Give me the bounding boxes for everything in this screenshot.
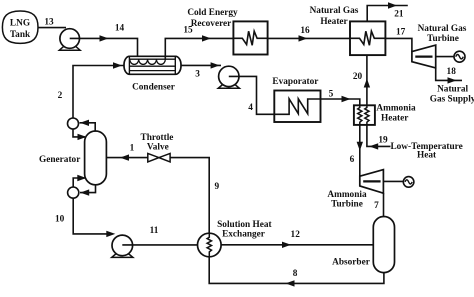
wire 3 (condenser to pump P2) (181, 62, 221, 68)
svg-text:Solution Heat: Solution Heat (217, 220, 272, 230)
svg-text:1: 1 (130, 144, 135, 154)
generator symbol (NG turbine) (454, 51, 465, 62)
svg-text:Turbine: Turbine (331, 199, 363, 209)
svg-text:Natural Gas: Natural Gas (418, 24, 467, 34)
wire reflux return (drum to generator) (73, 129, 87, 140)
wire 12 (solution heat exchanger to absorber) (221, 242, 373, 248)
shaft: ammonia turbine to generator (383, 180, 403, 182)
svg-text:Absorber: Absorber (332, 257, 370, 267)
wire vapor loop (generator top to reflux drum) (80, 120, 96, 132)
condenser (124, 56, 181, 74)
natural gas heater (350, 21, 385, 55)
throttle valve (148, 153, 170, 162)
wire 13 (tank to pump P1) (38, 27, 66, 29)
natural gas turbine (412, 45, 436, 68)
wire 18 (turbine exhaust to natural gas supply) (436, 68, 462, 84)
svg-text:Natural Gas: Natural Gas (310, 6, 359, 16)
svg-text:Turbine: Turbine (427, 34, 459, 44)
solution heat exchanger (198, 233, 222, 257)
wire liquid loop (generator bottom to drum) (80, 185, 96, 196)
reflux drum (bottom circle) (68, 187, 79, 198)
svg-text:8: 8 (293, 269, 298, 279)
pump P3 (112, 235, 133, 257)
svg-text:19: 19 (378, 135, 388, 145)
svg-text:16: 16 (300, 26, 310, 36)
svg-text:12: 12 (291, 230, 301, 240)
svg-text:5: 5 (329, 90, 334, 100)
svg-text:20: 20 (353, 72, 363, 82)
svg-text:11: 11 (150, 226, 159, 236)
svg-text:18: 18 (447, 67, 457, 77)
svg-text:9: 9 (214, 182, 219, 192)
svg-text:Heater: Heater (320, 17, 347, 27)
svg-text:Condenser: Condenser (132, 83, 175, 93)
generator symbol (ammonia turbine) (403, 177, 414, 188)
svg-text:3: 3 (195, 69, 200, 79)
svg-text:Exchanger: Exchanger (222, 229, 265, 239)
wire 2 (reflux drum to condenser) (73, 62, 124, 118)
LNG tank (2, 11, 38, 43)
wire 17 (heater to natural gas turbine) (385, 38, 412, 51)
svg-text:Gas Supply: Gas Supply (430, 94, 474, 104)
wire 7 (turbine exhaust to absorber) (383, 193, 385, 217)
svg-text:7: 7 (374, 201, 379, 211)
ammonia heater (354, 105, 375, 125)
svg-text:Ammonia: Ammonia (376, 103, 416, 113)
wire 16 (recoverer to natural gas heater) (268, 35, 350, 41)
pump P1 (LNG pump) (59, 29, 80, 51)
wire 21 (heater top outlet) (367, 2, 408, 21)
svg-text:4: 4 (248, 103, 253, 113)
svg-text:14: 14 (115, 24, 125, 34)
svg-text:Throttle: Throttle (141, 133, 174, 143)
svg-text:Tank: Tank (10, 30, 31, 40)
svg-text:Heater: Heater (381, 113, 408, 123)
svg-text:Cold Energy: Cold Energy (187, 8, 238, 18)
wire 1 (throttle valve to generator) (106, 154, 147, 160)
wire 8 (absorber bottom to solution heat exchanger) (209, 257, 384, 287)
cold energy recoverer (233, 21, 267, 54)
svg-text:LNG: LNG (10, 19, 30, 29)
wire loop return (drum to generator lower side) (73, 175, 86, 187)
wire 4 (pump P2 to evaporator) (229, 76, 274, 114)
wire 9 (solution heat exchanger to throttle valve) (170, 158, 209, 234)
wire 5 (evaporator to ammonia heater) (321, 96, 360, 106)
svg-text:Ammonia: Ammonia (327, 190, 367, 200)
wire 11 (pump P3 to solution heat exchanger) (122, 244, 197, 246)
ammonia turbine (360, 170, 384, 194)
absorber (373, 217, 394, 273)
evaporator (274, 91, 320, 123)
generator column (85, 131, 107, 185)
svg-text:6: 6 (350, 155, 355, 165)
svg-text:10: 10 (55, 214, 65, 224)
svg-text:Heat: Heat (417, 151, 437, 161)
svg-text:13: 13 (44, 18, 54, 28)
wire 15 (condenser coil outlet to cold energy recoverer) (165, 35, 233, 60)
pump P2 (218, 66, 239, 88)
svg-text:Generator: Generator (39, 155, 80, 165)
shaft: NG turbine to generator (436, 56, 454, 58)
wire 14 (pump P1 to condenser coil inlet) (70, 35, 138, 60)
svg-text:Natural: Natural (437, 84, 468, 94)
svg-text:17: 17 (396, 28, 406, 38)
svg-text:Recoverer: Recoverer (191, 19, 232, 29)
svg-text:21: 21 (394, 10, 404, 20)
wire 10 (drum to pump P3) (73, 198, 115, 237)
svg-text:2: 2 (58, 91, 63, 101)
wire 20 (ammonia heater to NG heater) (364, 55, 370, 105)
svg-text:Valve: Valve (147, 143, 169, 153)
wire 6 (ammonia heater to ammonia turbine) (357, 125, 363, 176)
wire 19 (low-temperature heat inlet) (367, 125, 391, 150)
reflux drum (top circle) (68, 118, 79, 129)
svg-text:Evaporator: Evaporator (272, 77, 318, 87)
